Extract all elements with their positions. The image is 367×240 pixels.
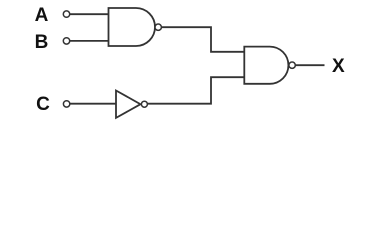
svg-text:X: X bbox=[332, 56, 345, 77]
svg-text:A: A bbox=[35, 5, 49, 26]
svg-text:B: B bbox=[35, 32, 49, 53]
svg-text:C: C bbox=[36, 94, 50, 115]
